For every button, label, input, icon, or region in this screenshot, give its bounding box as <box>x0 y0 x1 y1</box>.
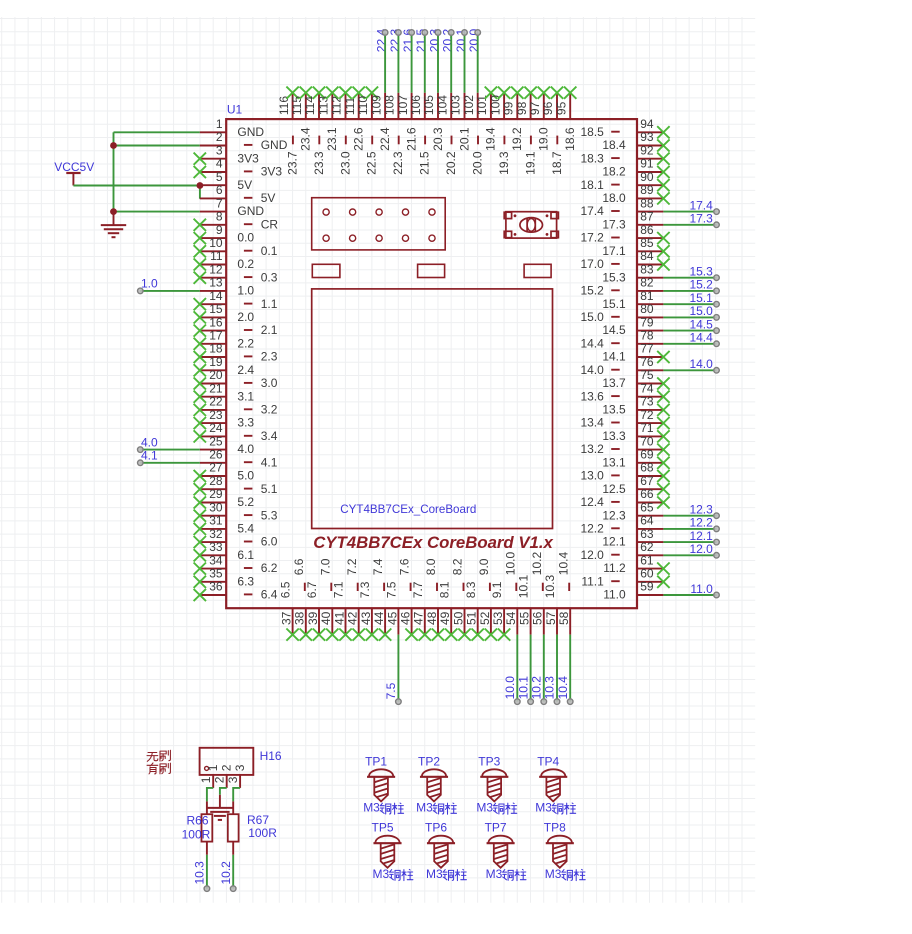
svg-text:H16: H16 <box>260 749 282 763</box>
svg-text:11: 11 <box>210 249 223 263</box>
svg-text:M3: M3 <box>426 867 443 881</box>
wire pin 102 to net 20.0 <box>475 30 481 93</box>
svg-text:R66: R66 <box>186 814 208 828</box>
svg-text:M3: M3 <box>363 800 380 814</box>
wire pin 64 to net 12.2 <box>663 526 719 532</box>
svg-text:M3: M3 <box>535 800 552 814</box>
svg-text:4.0: 4.0 <box>141 435 158 449</box>
pin 8 (CR) left <box>194 210 279 232</box>
pin 19 (2.4) left <box>194 355 255 377</box>
svg-text:105: 105 <box>422 95 436 115</box>
pin 115 (23.4) top <box>290 87 313 151</box>
pin 74 (13.6) right <box>580 381 669 403</box>
svg-text:5.3: 5.3 <box>261 508 278 522</box>
svg-text:5.2: 5.2 <box>237 495 254 509</box>
svg-text:7.4: 7.4 <box>371 558 385 575</box>
svg-text:106: 106 <box>409 95 423 115</box>
wire pin 108 to net 22.3 <box>396 30 402 93</box>
svg-text:10.3: 10.3 <box>193 861 207 885</box>
svg-text:36: 36 <box>209 580 223 594</box>
pin 2 (GND) left <box>200 130 288 152</box>
svg-text:19.0: 19.0 <box>537 127 551 151</box>
svg-text:35: 35 <box>209 567 223 581</box>
svg-text:10: 10 <box>209 236 223 250</box>
pin 32 (6.0) left <box>194 527 278 549</box>
pin 30 (5.3) left <box>194 500 278 522</box>
wire pin 78 to net 14.4 <box>663 341 719 347</box>
svg-text:11.2: 11.2 <box>603 561 626 575</box>
wire pin 105 to net 20.3 <box>435 30 441 93</box>
pin 111 (22.6) top <box>343 87 366 151</box>
svg-text:112: 112 <box>330 96 344 115</box>
pin 84 (17.0) right <box>580 249 669 271</box>
svg-text:15: 15 <box>209 302 223 316</box>
svg-text:13.1: 13.1 <box>602 455 626 469</box>
pin 43 (7.3) bottom <box>358 581 378 641</box>
svg-text:95: 95 <box>554 101 568 115</box>
svg-text:73: 73 <box>640 395 654 409</box>
wire pin 59 to net 11.0 <box>663 592 719 598</box>
pin 107 (21.6) top <box>396 93 419 151</box>
svg-text:61: 61 <box>640 553 654 567</box>
svg-text:18.3: 18.3 <box>580 151 604 165</box>
svg-text:17.4: 17.4 <box>689 198 713 212</box>
wire pin 57 to net 10.3 <box>554 635 560 705</box>
svg-text:10.0: 10.0 <box>503 676 517 700</box>
pin 99 (19.2) top <box>502 87 525 151</box>
svg-text:17: 17 <box>209 329 223 343</box>
svg-text:19: 19 <box>209 355 223 369</box>
svg-text:44: 44 <box>372 611 386 625</box>
svg-text:64: 64 <box>640 514 654 528</box>
pin 72 (13.4) right <box>580 408 669 430</box>
svg-text:11.0: 11.0 <box>690 582 713 596</box>
test point TP1 <box>365 754 395 803</box>
pin 90 (18.1) right <box>580 170 669 192</box>
svg-text:13.7: 13.7 <box>602 376 626 390</box>
svg-text:72: 72 <box>640 408 654 422</box>
svg-text:37: 37 <box>280 611 294 625</box>
text label wushua (brushless) <box>147 753 158 762</box>
pin 28 (5.1) left <box>194 474 278 496</box>
svg-text:18.4: 18.4 <box>602 138 626 152</box>
svg-text:7.6: 7.6 <box>398 558 412 575</box>
wire pin 87 to net 17.3 <box>663 222 719 228</box>
svg-text:14: 14 <box>209 289 223 303</box>
TP6 value M3 copper post <box>426 867 466 881</box>
svg-text:13.3: 13.3 <box>602 429 626 443</box>
svg-text:0.3: 0.3 <box>261 270 278 284</box>
svg-text:33: 33 <box>209 540 223 554</box>
ground symbol below H16 <box>207 795 233 820</box>
svg-text:20.3: 20.3 <box>431 127 445 151</box>
svg-text:17.4: 17.4 <box>580 204 604 218</box>
svg-text:18.1: 18.1 <box>580 178 604 192</box>
wire pin 107 to net 21.6 <box>409 30 415 93</box>
pin 47 (7.7) bottom <box>411 581 431 641</box>
pin 89 (18.0) right <box>602 183 669 205</box>
svg-text:6.1: 6.1 <box>237 548 254 562</box>
svg-text:2: 2 <box>220 764 234 771</box>
svg-text:12.4: 12.4 <box>580 495 604 509</box>
svg-text:39: 39 <box>306 611 320 625</box>
pin 75 (13.7) right <box>602 368 669 390</box>
wire H16 pin3 to R67 <box>233 788 240 802</box>
svg-text:16: 16 <box>209 315 223 329</box>
pin 113 (23.1) top <box>317 87 340 151</box>
svg-text:6.0: 6.0 <box>261 535 278 549</box>
pin 46 (7.6) bottom <box>398 558 418 641</box>
pin 42 (7.2) bottom <box>345 558 365 641</box>
svg-text:15.2: 15.2 <box>689 278 713 292</box>
crystal footprint inside U1 <box>504 212 558 238</box>
pin 105 (20.3) top <box>422 93 445 151</box>
pin 40 (7.0) bottom <box>318 558 338 641</box>
svg-text:76: 76 <box>640 355 654 369</box>
wire pin 81 to net 15.1 <box>663 301 719 307</box>
svg-text:11.0: 11.0 <box>603 588 626 602</box>
TP8 value M3 copper post <box>545 867 585 881</box>
wire pin 80 to net 15.0 <box>663 315 719 321</box>
svg-text:8.1: 8.1 <box>437 581 451 598</box>
svg-text:47: 47 <box>412 611 426 625</box>
svg-text:15.2: 15.2 <box>580 284 604 298</box>
svg-text:15.3: 15.3 <box>602 270 626 284</box>
svg-text:54: 54 <box>504 611 518 625</box>
wire pin 56 to net 10.2 <box>541 635 547 705</box>
pin 38 (6.6) bottom <box>292 558 312 641</box>
svg-text:TP6: TP6 <box>425 821 447 835</box>
wire H16 pin2 to ground <box>220 788 227 795</box>
svg-text:12: 12 <box>209 262 223 276</box>
svg-text:12.0: 12.0 <box>689 542 713 556</box>
svg-text:1: 1 <box>206 764 220 771</box>
svg-text:83: 83 <box>640 262 654 276</box>
wire pin 103 to net 20.1 <box>462 30 468 93</box>
pin 109 (22.4) top <box>369 93 392 151</box>
svg-text:3V3: 3V3 <box>237 151 259 165</box>
svg-text:23.1: 23.1 <box>325 127 339 151</box>
svg-text:14.1: 14.1 <box>602 350 626 364</box>
pin 73 (13.5) right <box>602 395 669 417</box>
svg-text:4.0: 4.0 <box>237 442 254 456</box>
svg-text:22: 22 <box>209 395 223 409</box>
pin 97 (19.0) top <box>528 87 551 151</box>
svg-text:20.2: 20.2 <box>444 151 458 175</box>
pin 57 (10.3) bottom <box>543 575 558 635</box>
pin 51 (8.3) bottom <box>464 581 484 641</box>
pin 112 (23.0) top <box>330 87 353 175</box>
svg-text:10.2: 10.2 <box>530 676 544 700</box>
svg-text:22.5: 22.5 <box>365 151 379 175</box>
wire pin 62 to net 12.0 <box>663 553 719 559</box>
svg-text:10.0: 10.0 <box>503 552 517 576</box>
pin 11 (0.2) left <box>194 249 255 271</box>
svg-text:10.1: 10.1 <box>516 676 530 700</box>
svg-text:8.2: 8.2 <box>451 558 465 575</box>
svg-text:3.3: 3.3 <box>237 416 254 430</box>
pin 94 (18.5) right <box>580 117 669 139</box>
pin 31 (5.4) left <box>194 514 255 536</box>
pin 86 (17.2) right <box>580 223 669 245</box>
svg-text:20.0: 20.0 <box>471 151 485 175</box>
svg-text:12.1: 12.1 <box>689 529 713 543</box>
svg-text:46: 46 <box>399 611 413 625</box>
svg-text:100R: 100R <box>182 827 211 841</box>
svg-text:1: 1 <box>199 776 213 783</box>
svg-text:96: 96 <box>541 101 555 115</box>
pin 77 (14.1) right <box>602 342 669 364</box>
wire pin 106 to net 21.5 <box>422 30 428 93</box>
svg-text:2.3: 2.3 <box>261 350 278 364</box>
junction dot GND pin7 <box>110 208 117 215</box>
svg-text:3.4: 3.4 <box>261 429 278 443</box>
svg-text:2.2: 2.2 <box>237 336 254 350</box>
pin 61 (11.2) right <box>603 553 669 575</box>
core board outline box inside U1 <box>312 289 553 529</box>
svg-text:107: 107 <box>396 95 410 115</box>
svg-text:12.3: 12.3 <box>689 503 713 517</box>
svg-text:M3: M3 <box>486 867 503 881</box>
mount pad rectangle 2 inside U1 <box>418 264 445 277</box>
pin 64 (12.2) right <box>580 514 663 536</box>
svg-text:6: 6 <box>216 183 223 197</box>
pin 21 (3.1) left <box>194 381 255 403</box>
pin 17 (2.2) left <box>194 329 255 351</box>
svg-text:12.3: 12.3 <box>602 508 626 522</box>
svg-text:15.1: 15.1 <box>689 291 713 305</box>
svg-text:28: 28 <box>209 474 223 488</box>
svg-text:66: 66 <box>640 487 654 501</box>
svg-text:31: 31 <box>209 514 223 528</box>
svg-text:7.3: 7.3 <box>358 581 372 598</box>
test point TP5 <box>371 821 401 870</box>
pin 103 (20.1) top <box>449 93 472 151</box>
pin 35 (6.3) left <box>194 567 255 589</box>
pin 13 (1.0) left <box>200 276 255 298</box>
svg-text:45: 45 <box>385 611 399 625</box>
svg-text:3: 3 <box>233 764 247 771</box>
svg-text:21.6: 21.6 <box>404 127 418 151</box>
svg-text:58: 58 <box>557 611 571 625</box>
svg-text:14.4: 14.4 <box>689 331 713 345</box>
pin 4 (3V3) left <box>194 157 283 179</box>
svg-text:30: 30 <box>209 500 223 514</box>
svg-text:5.4: 5.4 <box>237 522 254 536</box>
wire pin 25 to net 4.0 <box>138 447 200 453</box>
wire pin 79 to net 14.5 <box>663 328 719 334</box>
resistor R66 <box>202 801 213 854</box>
svg-text:110: 110 <box>356 96 370 115</box>
wire GND vertical bus <box>113 132 115 211</box>
svg-text:GND: GND <box>261 138 288 152</box>
svg-text:9.0: 9.0 <box>477 558 491 575</box>
pin 22 (3.2) left <box>194 395 278 417</box>
mount pad rectangle 1 inside U1 <box>312 264 340 277</box>
connector header footprint 2x5 inside U1 <box>312 198 446 250</box>
svg-text:80: 80 <box>640 302 654 316</box>
svg-text:22.4: 22.4 <box>378 127 392 151</box>
svg-text:23.3: 23.3 <box>312 151 326 175</box>
TP4 value M3 copper post <box>535 800 575 814</box>
svg-text:10.1: 10.1 <box>517 575 531 599</box>
pin 59 (11.0) right <box>603 580 663 602</box>
mount pad rectangle 3 inside U1 <box>524 264 551 277</box>
wire VCC5V to pin5 <box>73 185 199 187</box>
pin 58 (10.4) bottom <box>556 552 571 635</box>
pin 34 (6.2) left <box>194 553 278 575</box>
svg-text:25: 25 <box>209 434 223 448</box>
svg-text:94: 94 <box>640 117 654 131</box>
ground symbol <box>101 212 126 238</box>
pin 27 (5.0) left <box>194 461 255 483</box>
svg-text:15.1: 15.1 <box>602 297 626 311</box>
svg-text:88: 88 <box>640 196 654 210</box>
svg-text:12.5: 12.5 <box>602 482 626 496</box>
svg-text:62: 62 <box>640 540 654 554</box>
pin 82 (15.2) right <box>580 276 663 298</box>
svg-text:99: 99 <box>502 101 516 115</box>
svg-text:4.1: 4.1 <box>261 455 278 469</box>
H16 pin 1 <box>199 764 220 788</box>
test point TP2 <box>418 754 448 803</box>
svg-text:84: 84 <box>640 249 654 263</box>
svg-text:78: 78 <box>640 329 654 343</box>
pin 1 (GND) left <box>200 117 265 139</box>
wire R66 to net 10.3 <box>204 855 210 892</box>
svg-text:93: 93 <box>640 130 654 144</box>
test point TP8 <box>544 821 574 870</box>
svg-text:21: 21 <box>209 381 223 395</box>
pin 81 (15.1) right <box>602 289 663 311</box>
svg-text:6.7: 6.7 <box>305 581 319 598</box>
svg-text:53: 53 <box>491 611 505 625</box>
pin 80 (15.0) right <box>580 302 663 324</box>
svg-text:67: 67 <box>640 474 654 488</box>
svg-text:7.5: 7.5 <box>384 682 398 699</box>
svg-text:12.0: 12.0 <box>580 548 604 562</box>
pin 3 (3V3) left <box>194 143 259 165</box>
pin 87 (17.3) right <box>602 210 663 232</box>
pin 18 (2.3) left <box>194 342 278 364</box>
svg-text:18.0: 18.0 <box>602 191 626 205</box>
svg-text:15.0: 15.0 <box>580 310 604 324</box>
pin 37 (6.5) bottom <box>279 581 299 641</box>
svg-text:TP7: TP7 <box>485 821 507 835</box>
svg-text:100R: 100R <box>248 826 277 840</box>
TP3 value M3 copper post <box>476 800 516 814</box>
svg-text:90: 90 <box>640 170 654 184</box>
svg-text:M3: M3 <box>476 800 493 814</box>
svg-text:20.1: 20.1 <box>457 127 471 151</box>
svg-text:21.5: 21.5 <box>418 151 432 175</box>
pin 85 (17.1) right <box>602 236 669 258</box>
svg-text:14.4: 14.4 <box>580 336 604 350</box>
svg-text:1: 1 <box>216 117 223 131</box>
svg-text:103: 103 <box>449 95 463 115</box>
svg-text:26: 26 <box>209 448 223 462</box>
svg-text:23.4: 23.4 <box>299 127 313 151</box>
pin 5 (5V) left <box>200 170 252 192</box>
svg-text:77: 77 <box>640 342 654 356</box>
TP5 value M3 copper post <box>373 867 413 881</box>
test point TP6 <box>425 821 455 870</box>
svg-text:6.3: 6.3 <box>237 574 254 588</box>
svg-text:81: 81 <box>640 289 654 303</box>
svg-text:111: 111 <box>343 97 357 116</box>
svg-text:41: 41 <box>332 611 346 625</box>
svg-text:6.6: 6.6 <box>292 558 306 575</box>
svg-text:12.1: 12.1 <box>602 535 626 549</box>
pin 108 (22.3) top <box>383 93 406 175</box>
pin 66 (12.4) right <box>580 487 669 509</box>
pin 26 (4.1) left <box>200 448 278 470</box>
svg-text:10.4: 10.4 <box>556 552 570 576</box>
pin 45 (7.5) bottom <box>385 581 400 634</box>
svg-text:63: 63 <box>640 527 654 541</box>
svg-text:TP2: TP2 <box>418 754 440 768</box>
pin 63 (12.1) right <box>602 527 663 549</box>
wire pin 55 to net 10.1 <box>528 635 534 705</box>
svg-text:48: 48 <box>425 611 439 625</box>
svg-text:104: 104 <box>435 95 449 115</box>
svg-text:5: 5 <box>216 170 223 184</box>
svg-text:17.1: 17.1 <box>602 244 626 258</box>
pin 24 (3.4) left <box>194 421 278 443</box>
svg-text:15.0: 15.0 <box>689 304 713 318</box>
svg-text:10.4: 10.4 <box>556 676 570 700</box>
svg-text:M3: M3 <box>373 867 390 881</box>
svg-text:R67: R67 <box>247 813 269 827</box>
pin 15 (2.0) left <box>194 302 255 324</box>
wire pin 58 to net 10.4 <box>567 635 573 705</box>
svg-text:10.2: 10.2 <box>530 552 544 576</box>
svg-text:TP4: TP4 <box>537 754 559 768</box>
wire pin2 GND horizontal <box>114 145 200 147</box>
svg-text:11.1: 11.1 <box>581 574 604 588</box>
pin 12 (0.3) left <box>194 262 278 284</box>
svg-text:5V: 5V <box>261 191 276 205</box>
svg-text:23.7: 23.7 <box>285 151 299 175</box>
wire pin1 GND horizontal <box>114 131 200 133</box>
svg-text:CYT4BB7CEx CoreBoard V1.x: CYT4BB7CEx CoreBoard V1.x <box>313 533 553 552</box>
svg-text:17.3: 17.3 <box>602 217 626 231</box>
svg-text:13.2: 13.2 <box>580 442 604 456</box>
svg-text:TP8: TP8 <box>544 821 566 835</box>
svg-text:49: 49 <box>438 611 452 625</box>
wire pin 88 to net 17.4 <box>663 209 719 215</box>
pin 54 (10.0) bottom <box>503 552 518 635</box>
wire pin 109 to net 22.4 <box>382 30 388 93</box>
grid background <box>0 17 755 903</box>
svg-text:3.0: 3.0 <box>261 376 278 390</box>
svg-text:43: 43 <box>359 611 373 625</box>
svg-text:92: 92 <box>640 143 654 157</box>
wire pin5 to pin6 vertical <box>199 186 201 199</box>
svg-text:1.0: 1.0 <box>141 277 158 291</box>
svg-text:3: 3 <box>226 776 240 783</box>
svg-text:4.1: 4.1 <box>141 449 158 463</box>
pin 44 (7.4) bottom <box>371 558 391 641</box>
text label youshua (brushed) <box>147 763 158 774</box>
H16 pin 3 <box>226 764 247 788</box>
svg-text:3.1: 3.1 <box>237 389 254 403</box>
test point TP7 <box>485 821 515 870</box>
svg-text:17.3: 17.3 <box>689 212 713 226</box>
svg-text:GND: GND <box>237 125 264 139</box>
svg-text:TP5: TP5 <box>371 821 393 835</box>
svg-text:14.5: 14.5 <box>602 323 626 337</box>
